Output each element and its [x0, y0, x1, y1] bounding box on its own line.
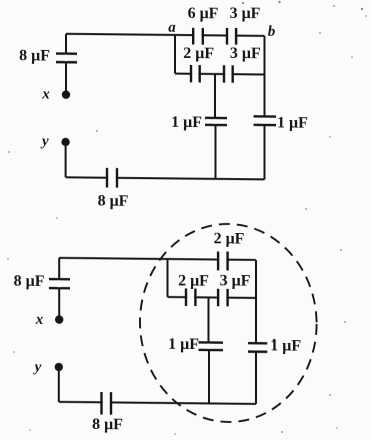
- svg-text:8 μF: 8 μF: [92, 416, 123, 433]
- svg-text:8 μF: 8 μF: [19, 47, 50, 64]
- svg-text:1 μF: 1 μF: [277, 114, 308, 131]
- svg-text:1 μF: 1 μF: [270, 337, 301, 354]
- svg-text:2 μF: 2 μF: [214, 230, 245, 247]
- svg-text:1 μF: 1 μF: [171, 114, 202, 131]
- svg-text:y: y: [40, 134, 49, 150]
- svg-text:a: a: [168, 20, 176, 36]
- svg-text:3 μF: 3 μF: [230, 45, 261, 62]
- svg-text:8 μF: 8 μF: [14, 273, 45, 290]
- svg-text:b: b: [268, 24, 276, 40]
- svg-text:x: x: [41, 86, 50, 102]
- svg-text:y: y: [33, 359, 42, 375]
- svg-text:2 μF: 2 μF: [183, 45, 214, 62]
- svg-text:2 μF: 2 μF: [178, 273, 209, 290]
- svg-text:3 μF: 3 μF: [220, 273, 251, 290]
- svg-text:8 μF: 8 μF: [98, 192, 129, 209]
- svg-text:6 μF: 6 μF: [188, 5, 219, 22]
- svg-text:1 μF: 1 μF: [168, 336, 199, 353]
- svg-text:x: x: [35, 312, 44, 328]
- svg-text:3 μF: 3 μF: [230, 5, 261, 22]
